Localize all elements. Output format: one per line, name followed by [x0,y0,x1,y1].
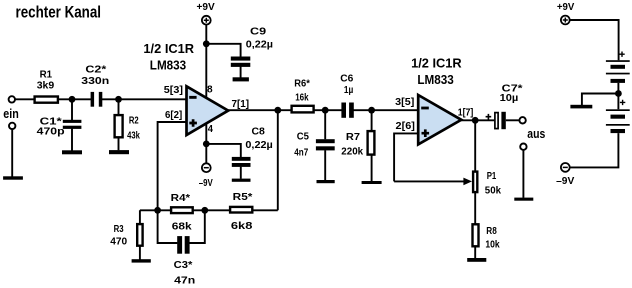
svg-text:5[3]: 5[3] [164,85,183,96]
op-amp U2 minus input mark [421,107,429,110]
capacitor C5 [316,139,335,150]
node +9V / C9 [203,40,210,47]
capacitor C7 electrolytic [495,112,506,129]
battery B2 cell plates [606,109,630,133]
terminal aus upper [519,117,525,123]
svg-text:3[5]: 3[5] [395,97,414,108]
wire aus lower terminal to ground [522,150,524,198]
capacitor C6 [341,103,353,118]
wire R4 to R5 [194,209,230,211]
svg-text:220k: 220k [341,146,363,158]
op-amp U1 IC1R [187,86,229,135]
svg-text:C5: C5 [297,131,309,143]
battery B1 plus mark [619,52,624,57]
wire feedback drop from output node [277,110,279,210]
resistor R6 [292,106,314,113]
terminal ein lower [9,123,15,129]
svg-text:16k: 16k [295,91,309,103]
node pin4 / C8 [203,141,210,148]
svg-text:LM833: LM833 [417,73,453,87]
svg-text:P1: P1 [487,170,497,182]
wire battery to -9V right [570,133,618,167]
C7 polarity plus mark [486,114,492,120]
resistor R2 [115,115,123,137]
ground at C9 [233,77,249,81]
svg-text:–9V: –9V [556,175,574,187]
svg-text:C3*: C3* [174,259,194,271]
svg-text:3k9: 3k9 [37,79,55,91]
wire output node to P1 [474,120,476,171]
svg-text:68k: 68k [172,220,192,232]
resistor R3 [137,224,142,246]
svg-text:+9V: +9V [197,1,215,13]
wire C3 loop right [189,210,205,243]
wire P1 to R8 [474,193,476,224]
wire C7 to aus [506,119,520,121]
resistor R4 [171,207,193,213]
terminal ein upper [9,96,15,102]
wire P1 wiper [394,180,465,182]
svg-text:10k: 10k [485,239,499,251]
svg-text:LM833: LM833 [150,59,186,73]
battery B2 plus mark [620,100,625,105]
svg-text:C6: C6 [340,72,353,84]
node after C2 [115,96,122,103]
svg-text:0,22µ: 0,22µ [245,139,272,151]
wire R1 to C2 [59,98,92,100]
svg-text:rechter Kanal: rechter Kanal [16,3,102,22]
capacitor C8 [232,157,251,167]
svg-text:10µ: 10µ [500,92,519,104]
svg-text:7[1]: 7[1] [232,99,250,110]
svg-text:C2*: C2* [85,63,107,75]
terminal +9V op1 [202,16,211,25]
svg-text:–9V: –9V [199,177,213,189]
wire battery mid junction [582,83,619,109]
svg-text:C8: C8 [252,126,266,138]
op-amp U1 plus input mark [189,119,197,127]
svg-text:R3: R3 [114,223,124,235]
svg-text:1/2 IC1R: 1/2 IC1R [143,42,194,56]
svg-text:8: 8 [207,84,213,95]
svg-text:2[6]: 2[6] [396,121,415,132]
svg-text:4: 4 [208,124,214,135]
svg-text:43k: 43k [127,129,140,141]
wire R5 to drop [253,209,278,211]
svg-text:330n: 330n [81,75,109,87]
svg-text:+9V: +9V [557,1,574,13]
wire ein lower terminal to ground [11,129,13,176]
wire R3 connection [139,210,141,259]
wire op2 output to C7 [460,119,494,121]
potentiometer P1 wiper arrow [463,178,472,186]
node after R1 [69,96,76,103]
ground at battery center tap [570,105,592,109]
ground at R3 [132,259,151,262]
wire op1 pin4 to -9V [205,123,207,163]
wire ein to R1 [15,98,34,100]
wire C1 branch [71,99,73,150]
node feedback right [201,207,208,214]
potentiometer P1 [473,172,477,193]
svg-text:R6*: R6* [294,78,310,90]
svg-text:ein: ein [3,106,19,121]
wire C2 to op-amp pin5 [102,98,187,100]
ground at R8 [467,258,486,262]
node op2 output [472,117,479,124]
wire op1 output to R6 [226,109,291,111]
resistor R7 [368,131,375,155]
wire op1 pin6 to feedback node [158,122,187,210]
wire C8 branch [206,144,241,179]
svg-text:1[7]: 1[7] [458,108,474,119]
svg-text:4n7: 4n7 [294,146,308,158]
resistor R1 [35,97,58,103]
svg-text:R7: R7 [346,131,360,143]
svg-text:R2: R2 [129,115,139,127]
capacitor C3 [177,236,189,254]
terminal -9V battery [561,163,570,172]
resistor R5 [230,207,252,213]
wire C6 to op2 pin3 [354,109,419,111]
node op1 output [274,107,281,114]
wire feedback line R3 to R4 [140,209,171,211]
wire R2 branch [118,99,120,150]
node at R7 [368,107,375,114]
ground at R7 [362,181,382,184]
wire C3 loop left [158,210,178,243]
wire R6 to C6 [314,109,341,111]
svg-text:R5*: R5* [233,191,254,203]
terminal aus lower [520,144,526,150]
op-amp U1 minus input mark [189,96,196,99]
ground at C5 [317,180,335,183]
svg-text:470p: 470p [37,125,65,137]
svg-text:R8: R8 [486,225,497,237]
ground at R2 [109,150,129,154]
terminal +9V battery [561,16,570,25]
op-amp U2 IC1R [418,95,461,144]
svg-text:0,22µ: 0,22µ [246,39,273,51]
svg-text:50k: 50k [485,184,501,196]
svg-text:6[2]: 6[2] [165,110,182,121]
svg-text:R4*: R4* [171,192,191,204]
wire op2 pin2 riser [394,133,418,181]
node feedback left [154,207,161,214]
svg-text:1µ: 1µ [344,84,353,96]
svg-text:6k8: 6k8 [231,220,253,232]
wire +9V right to battery [570,20,619,60]
resistor R8 [473,224,479,246]
wire +9V to op1 pin8 [205,25,207,99]
svg-text:1/2 IC1R: 1/2 IC1R [411,56,462,70]
node battery center [615,90,622,97]
capacitor C9 [231,57,251,67]
battery B1 cell plates [606,60,630,83]
wire R8 to ground [474,247,476,258]
ground at C8 [232,179,251,182]
capacitor C1 [63,120,82,129]
wire C9 branch [206,44,240,78]
ground at C1 [62,150,82,154]
ground at ein [3,176,23,179]
op-amp U2 plus input mark [422,129,430,137]
node at C5 [322,107,329,114]
svg-text:aus: aus [527,126,545,141]
wire R7 branch [371,110,373,181]
svg-text:C9: C9 [250,26,266,38]
wire C5 branch [324,110,326,180]
ground at aus [514,198,533,201]
terminal -9V op1 [202,163,211,172]
capacitor C2 [91,92,103,107]
svg-text:47n: 47n [174,275,195,287]
svg-text:470: 470 [110,236,127,248]
